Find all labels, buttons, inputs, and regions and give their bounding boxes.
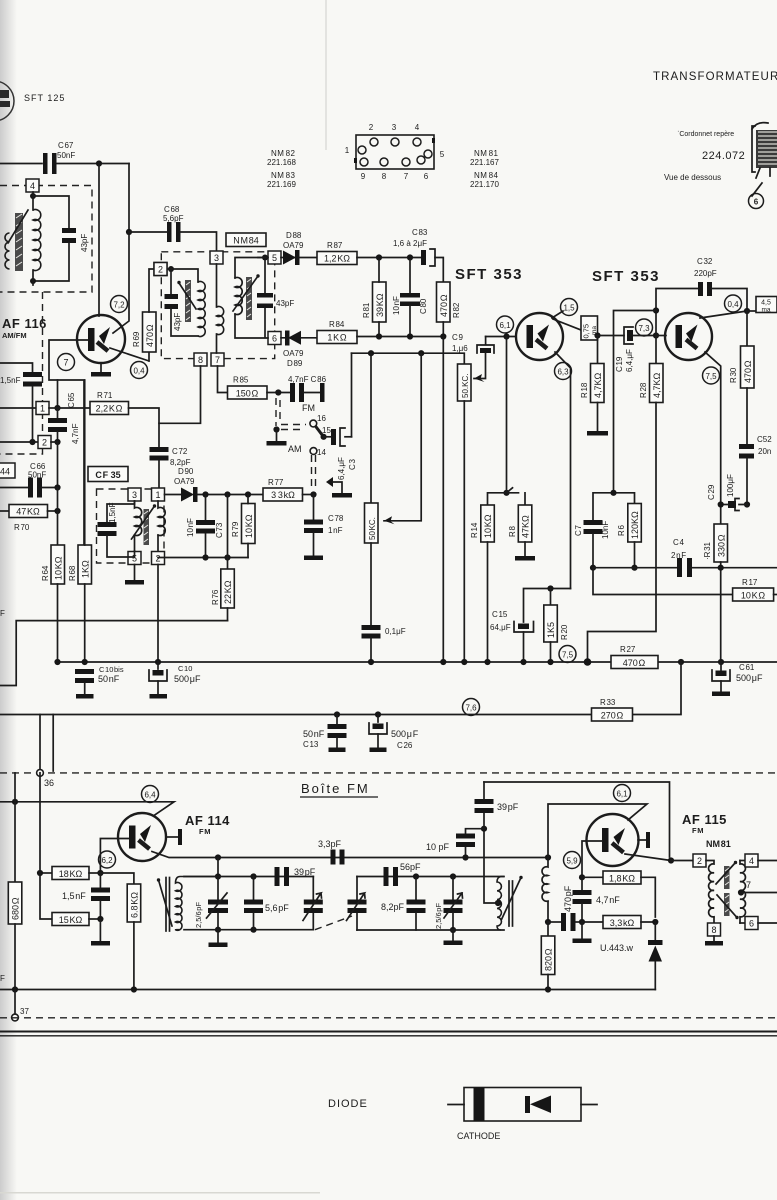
bus node 6.8K — [131, 986, 137, 992]
svg-text:47KΩ: 47KΩ — [521, 515, 531, 538]
svg-text:D 88: D 88 — [286, 231, 302, 240]
svg-text:7,5: 7,5 — [562, 651, 574, 660]
resistor 18K — [40, 867, 100, 880]
diode D88 OA79 — [281, 231, 304, 265]
svg-text:1 K Ω: 1 K Ω — [327, 333, 347, 343]
svg-text:C 10: C 10 — [178, 664, 192, 673]
svg-text:NM 82: NM 82 — [271, 149, 296, 158]
pin box 5 CF35 — [128, 552, 141, 565]
node coil bottom — [30, 278, 36, 284]
svg-text:FM: FM — [302, 403, 315, 413]
svg-text:C 15: C 15 — [492, 610, 508, 619]
ferrite core bar — [15, 213, 23, 271]
NM81 pin box 8 — [708, 923, 721, 936]
capacitor 0,1uF — [362, 625, 406, 662]
svg-text:39 pF: 39 pF — [497, 802, 519, 812]
resistor R8 47K — [508, 505, 535, 561]
svg-text:20n: 20n — [758, 447, 771, 456]
capacitor C78 1nF — [304, 495, 344, 561]
resistor R28 4,7K — [639, 336, 663, 403]
wire R76 return to left edge — [0, 621, 228, 686]
svg-text:6: 6 — [424, 172, 429, 181]
node 10pF line — [462, 854, 468, 860]
svg-text:R 70: R 70 — [14, 523, 30, 532]
pin box 8 — [194, 353, 207, 366]
wire sec top to box5 — [258, 257, 268, 259]
svg-text:R 30: R 30 — [729, 367, 738, 383]
svg-text:2: 2 — [155, 554, 160, 564]
svg-text:2: 2 — [369, 123, 374, 132]
AF115 emitter wire — [548, 804, 647, 858]
wire D88 to R87 — [299, 257, 317, 259]
svg-text:C 13: C 13 — [303, 740, 319, 749]
AM ant coil small left — [5, 233, 10, 269]
capacitor C7 10nF — [574, 520, 610, 568]
svg-text:C 61: C 61 — [739, 663, 755, 672]
svg-text:AF 114: AF 114 — [185, 813, 230, 828]
svg-text:7,2: 7,2 — [113, 301, 125, 310]
svg-text:OA79: OA79 — [174, 477, 195, 486]
NM84 core left — [185, 280, 191, 322]
contact 15 stub — [326, 477, 352, 498]
node linkage ground — [273, 426, 279, 432]
AM ant coil — [33, 209, 41, 270]
svg-text:Vue de dessous: Vue de dessous — [664, 173, 721, 182]
dashed box NM84 — [161, 252, 274, 359]
svg-text:43pF: 43pF — [173, 313, 182, 331]
capacitor C65 — [48, 392, 80, 444]
resistor R30 470 — [729, 311, 754, 444]
wire R71 to C72 — [129, 408, 160, 447]
node 470pF 3,3K — [579, 919, 585, 925]
svg-text:R 77: R 77 — [268, 478, 284, 487]
wire top to 43pF — [33, 196, 69, 228]
FM bottom bus — [0, 989, 655, 991]
resistor R33 270 — [592, 698, 633, 721]
pin circle 37 — [12, 990, 30, 1021]
bus2 node C13 — [334, 711, 340, 717]
svg-text:F: F — [0, 609, 5, 618]
svg-text:470 pF: 470 pF — [563, 885, 573, 912]
wire AF116 collector top lead — [98, 164, 100, 317]
wire R84 to nodes — [357, 336, 443, 338]
node R81 bottom — [376, 333, 382, 339]
svg-text:R 79: R 79 — [231, 521, 240, 537]
tank1 bottom rail — [184, 929, 313, 931]
svg-text:7: 7 — [63, 358, 68, 368]
wire CF35 bottom rail — [158, 557, 248, 559]
node R82 bottom — [440, 333, 446, 339]
capacitor 5,6pF — [244, 873, 289, 932]
svg-text:2: 2 — [697, 856, 702, 866]
svg-text:1,5: 1,5 — [563, 304, 575, 313]
bus node C61 — [718, 659, 724, 665]
tank1 top rail — [184, 876, 313, 878]
svg-text:50 nF: 50 nF — [98, 674, 120, 684]
node R85 out — [275, 389, 281, 395]
svg-text:2: 2 — [158, 265, 163, 275]
transistor AF116 — [77, 315, 125, 363]
svg-text:39 KΩ: 39 KΩ — [375, 293, 385, 317]
svg-text:120KΩ: 120KΩ — [630, 511, 640, 539]
svg-text:10 pF: 10 pF — [426, 842, 450, 852]
svg-text:3,3pF: 3,3pF — [318, 839, 342, 849]
switch linkage dashed — [276, 398, 306, 430]
node below box4 — [30, 193, 36, 199]
pin circle 36 — [37, 715, 54, 789]
node C73 bottom — [202, 554, 208, 560]
capacitor C3 6,4uF electrolytic — [324, 428, 357, 480]
svg-text:3 3 kΩ: 3 3 kΩ — [271, 490, 295, 500]
svg-text:D 90: D 90 — [178, 467, 194, 476]
svg-text:4: 4 — [30, 181, 35, 191]
svg-text:6,1: 6,1 — [616, 790, 628, 799]
AF116 base wire — [49, 340, 88, 545]
svg-text:2,5/6 pF: 2,5/6 pF — [434, 903, 443, 929]
svg-text:16: 16 — [317, 414, 326, 423]
bus node R20 — [547, 659, 553, 665]
svg-text:3: 3 — [392, 123, 397, 132]
FM boundary dashed — [0, 772, 777, 774]
svg-text:0,4: 0,4 — [727, 300, 739, 309]
node osc tap — [495, 900, 501, 906]
callout 7 — [58, 354, 75, 371]
AF116 collector diagonal to R69 — [110, 348, 149, 361]
AF115 collector lead — [625, 854, 671, 861]
svg-text:AF 115: AF 115 — [682, 812, 727, 827]
arrow into 50KC B — [384, 516, 395, 524]
AGC bus wire — [593, 567, 677, 569]
boxed label NM 84 — [226, 233, 266, 247]
svg-text:18 KΩ: 18 KΩ — [59, 869, 83, 879]
svg-text:10 KΩ: 10 KΩ — [483, 514, 493, 538]
svg-text:C 68: C 68 — [164, 205, 180, 214]
node 39pF 10pF — [481, 826, 487, 832]
capacitor C61 500uF electrolytic — [712, 662, 763, 696]
wire left to box2 — [0, 441, 38, 443]
node 1K5 top — [547, 585, 553, 591]
wire left edge to C67 — [0, 163, 42, 165]
capacitor 3,3pF — [318, 839, 345, 865]
meter box 4,5 ma — [747, 297, 777, 314]
svg-text:220pF: 220pF — [694, 269, 717, 278]
node tank1 top — [215, 873, 221, 879]
svg-text:680 Ω: 680 Ω — [11, 897, 21, 920]
NM81 secondary — [740, 861, 745, 924]
resistor R20 1K5 — [544, 589, 569, 663]
callout 1,5 — [561, 299, 578, 316]
svg-text:224.072: 224.072 — [702, 150, 745, 162]
node T2 base — [653, 332, 659, 338]
rail 50KC — [352, 353, 465, 364]
node C7 bus — [590, 565, 596, 571]
svg-text:5: 5 — [272, 253, 277, 263]
wire AF116 emitter from C68 node — [113, 232, 129, 333]
wire 39pF loop to tap — [484, 831, 498, 903]
section double rule — [0, 1032, 777, 1036]
svg-text:R 6: R 6 — [617, 525, 626, 536]
box 50KC A — [458, 364, 472, 662]
ground CF35 — [125, 565, 144, 585]
node C66 — [54, 484, 60, 490]
svg-text:R 76: R 76 — [211, 589, 220, 605]
svg-text:500 μF: 500 μF — [736, 673, 763, 683]
coupling line C7 R6 — [593, 493, 635, 520]
node right of box2 — [168, 266, 174, 272]
node base bias — [579, 874, 585, 880]
svg-text:Boîte FM: Boîte FM — [301, 781, 370, 796]
AF114 base lead — [100, 839, 129, 874]
callout 6,2 — [99, 851, 116, 868]
svg-text:22 KΩ: 22 KΩ — [223, 580, 233, 604]
pin box 1 CF35 — [152, 488, 165, 501]
wire coil3 top — [216, 264, 218, 307]
contact 16 — [310, 414, 327, 427]
svg-text:C 72: C 72 — [172, 447, 188, 456]
svg-text:10nF: 10nF — [601, 521, 610, 539]
svg-text:15: 15 — [322, 426, 331, 435]
svg-text:37: 37 — [20, 1007, 29, 1016]
wire box1 to node — [49, 407, 58, 409]
node C32 riser — [653, 307, 659, 313]
pin box 44 — [0, 463, 15, 478]
svg-text:C 29: C 29 — [707, 484, 716, 500]
svg-text:10 nF: 10 nF — [392, 296, 401, 315]
svg-text:8,2pF: 8,2pF — [170, 458, 191, 467]
svg-text:56pF: 56pF — [400, 862, 421, 872]
svg-text:3: 3 — [132, 490, 137, 500]
wire R28 bottom return — [588, 403, 657, 663]
bus node C15 — [520, 659, 526, 665]
wire C83 to R82 — [435, 258, 443, 283]
capacitor 4,7nF FM — [573, 877, 621, 922]
svg-text:8: 8 — [711, 925, 716, 935]
svg-text:10 K Ω: 10 K Ω — [741, 591, 766, 601]
NM81 tap 7 — [738, 880, 777, 896]
ground R18 — [587, 431, 608, 436]
svg-text:36: 36 — [44, 778, 54, 788]
svg-text:R 81: R 81 — [362, 302, 371, 318]
trimmer 2,5/6pF tank2 — [434, 877, 463, 931]
osc arrow — [502, 876, 523, 920]
capacitor C73 10nF — [186, 495, 224, 558]
meter box 0,75 ma — [581, 316, 598, 340]
svg-text:R 17: R 17 — [742, 578, 758, 587]
wire 1,5nF to box2 wire — [32, 387, 34, 443]
wire node to C68 — [129, 231, 167, 233]
svg-text:R 14: R 14 — [470, 522, 479, 538]
svg-text:2,2 K Ω: 2,2 K Ω — [96, 404, 123, 414]
node C80 top — [407, 254, 413, 260]
svg-text:R 69: R 69 — [132, 331, 141, 347]
ground 1,5nF — [91, 919, 110, 946]
svg-text:ˈCordonnet repère: ˈCordonnet repère — [677, 130, 734, 138]
svg-text:10 KΩ: 10 KΩ — [244, 514, 254, 538]
node trim2 bottom — [450, 927, 456, 933]
node AF115 collector — [668, 857, 674, 863]
pin box 4 — [26, 179, 39, 192]
svg-text:5: 5 — [440, 150, 445, 159]
svg-text:4,7nF: 4,7nF — [71, 423, 80, 444]
AF114 shield lead — [166, 829, 182, 845]
svg-text:R 64: R 64 — [41, 565, 50, 581]
capacitor 1,5nF FM — [62, 873, 110, 919]
node under C67 — [96, 160, 102, 166]
wire R76 riser — [227, 495, 229, 570]
NM81 adjust diagonals — [716, 861, 739, 919]
svg-text:SFT 353: SFT 353 — [592, 268, 660, 285]
svg-text:50nF: 50nF — [57, 151, 75, 160]
tank1 core — [166, 878, 170, 932]
node coil bottom — [545, 919, 551, 925]
dashed box CF35 — [97, 489, 165, 563]
wire left to box1 — [0, 407, 36, 409]
svg-text:270 Ω: 270 Ω — [601, 710, 624, 720]
svg-text:CATHODE: CATHODE — [457, 1131, 500, 1141]
dashed AM region — [0, 292, 43, 454]
wire base to T2 — [656, 335, 666, 337]
node R6 bus — [631, 565, 637, 571]
svg-text:1,2 KΩ: 1,2 KΩ — [324, 254, 350, 264]
diode legend figure — [448, 1088, 597, 1122]
capacitor C67 — [43, 141, 75, 174]
CF35 coil right — [158, 501, 165, 551]
wire pin37 col — [52, 715, 54, 772]
svg-text:6,4: 6,4 — [144, 791, 156, 800]
svg-text:C 80: C 80 — [419, 298, 428, 314]
dashed boundary 2 — [0, 1017, 777, 1019]
svg-text:5,6pF: 5,6pF — [163, 214, 184, 223]
wire coil bottom stub — [32, 270, 34, 285]
capacitor 56pF — [384, 862, 422, 886]
svg-text:3: 3 — [214, 253, 219, 263]
ground tank2 — [444, 930, 463, 945]
node diode col — [652, 919, 658, 925]
resistor R77 33K — [263, 478, 314, 501]
svg-text:7: 7 — [746, 880, 751, 890]
svg-text:7,3: 7,3 — [638, 324, 650, 333]
NM81 pin box 2 — [693, 854, 706, 867]
callout 6,4 — [142, 786, 159, 803]
svg-text:44: 44 — [0, 467, 10, 477]
svg-text:1KΩ: 1KΩ — [80, 560, 90, 578]
svg-text:C 73: C 73 — [215, 522, 224, 538]
loop top wire — [484, 782, 670, 857]
T2 emitter lead down — [705, 352, 721, 524]
C9 tap to 50KC A — [474, 353, 486, 382]
capacitor C10bis 50nF — [75, 665, 124, 699]
dashed box AM input transformer — [0, 186, 92, 293]
svg-text:4,7nF C 86: 4,7nF C 86 — [288, 375, 327, 384]
capacitor C4 2nF — [671, 538, 692, 577]
contact 14 — [310, 448, 326, 457]
pin box 2 — [38, 436, 51, 449]
svg-text:4,7KΩ: 4,7KΩ — [593, 372, 603, 398]
svg-text:AF 116: AF 116 — [2, 316, 47, 331]
ground 4,7nF — [573, 922, 592, 943]
svg-text:470 Ω: 470 Ω — [145, 324, 155, 347]
svg-text:500 μ F: 500 μ F — [391, 729, 419, 739]
svg-text:43pF: 43pF — [276, 299, 294, 308]
node emitter R18 — [594, 332, 600, 338]
resistor R64 10K — [41, 545, 65, 662]
T1 collector lead down — [555, 352, 571, 589]
NM84 core right — [246, 277, 252, 320]
svg-text:4,7 nF: 4,7 nF — [596, 895, 620, 905]
capacitor 8,2pF — [381, 877, 426, 931]
callout 6,3 — [555, 363, 572, 380]
coupling coil — [542, 858, 548, 923]
callout 0,4 T2 — [725, 295, 742, 312]
svg-text:AM/FM: AM/FM — [2, 331, 27, 340]
wire C4 to R31 — [692, 567, 777, 569]
main bus — [58, 661, 612, 663]
bus node R28ret — [584, 658, 592, 666]
capacitor 39pF tank1 — [275, 867, 316, 886]
svg-text:1,5nF: 1,5nF — [108, 502, 117, 523]
svg-text:NM 83: NM 83 — [271, 171, 296, 180]
svg-text:TRANSFORMATEUR: TRANSFORMATEUR — [653, 71, 777, 83]
osc core — [509, 881, 513, 926]
diode D90 OA79 — [165, 467, 264, 502]
svg-text:DIODE: DIODE — [328, 1098, 368, 1110]
wire base node to box1 node — [57, 380, 59, 408]
node R76 mid — [224, 554, 230, 560]
node C73 top — [202, 491, 208, 497]
capacitor C26 500uF electrolytic — [369, 715, 419, 753]
wire R82 node down to bus — [442, 337, 444, 663]
wire C68 right to box3 — [181, 232, 217, 251]
node box2 right — [54, 439, 60, 445]
svg-text:SFT 125: SFT 125 — [24, 93, 65, 103]
svg-text:2 n F: 2 n F — [671, 551, 686, 560]
svg-text:0,1μF: 0,1μF — [385, 627, 406, 636]
resistor R84 1K — [317, 320, 357, 344]
NM81 primary — [706, 861, 714, 924]
svg-text:NM 81: NM 81 — [706, 839, 731, 849]
svg-text:C52: C52 — [757, 435, 772, 444]
svg-text:AM: AM — [288, 444, 302, 454]
resistor R79 10K — [231, 495, 255, 558]
ground tank1 — [209, 930, 228, 947]
svg-text:R 87: R 87 — [327, 241, 343, 250]
node C68 left — [126, 229, 132, 235]
resistor R17 10K — [733, 578, 777, 601]
resistor R14 10K — [470, 505, 494, 662]
resistor 3,3K — [582, 916, 655, 929]
wire box2 to node and down — [51, 442, 58, 488]
AF114 collector lead — [152, 852, 548, 858]
connector NM8x top view — [354, 135, 435, 169]
callout 6,1 T1 — [497, 316, 514, 333]
svg-text:·R 31: ·R 31 — [703, 541, 712, 560]
svg-text:6,4,μF: 6,4,μF — [337, 457, 346, 480]
wire corner down to C68 node — [128, 164, 130, 233]
tuning arrow — [8, 210, 28, 243]
node T1 base — [503, 333, 509, 339]
node col36 18K — [37, 870, 43, 876]
svg-text:F M: F M — [199, 827, 210, 836]
node AF115 em junction — [545, 854, 551, 860]
svg-text:5,6 pF: 5,6 pF — [265, 903, 289, 913]
linkage 14 dashed — [312, 455, 316, 491]
svg-text:C F 35: C F 35 — [95, 470, 120, 480]
mech link dashed tank1-2 — [315, 916, 352, 930]
transistor T2 SFT353 — [665, 313, 712, 360]
tank1 arrow — [157, 878, 172, 926]
resistor R18 4,7K — [580, 336, 604, 432]
node 18K base — [97, 870, 103, 876]
